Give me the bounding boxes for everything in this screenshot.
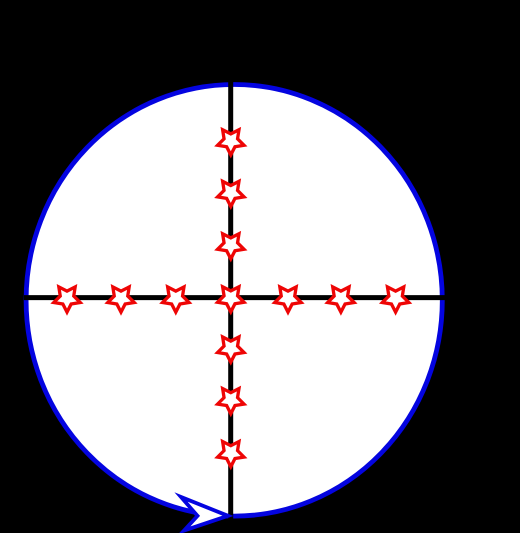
star H7 bbox=[382, 287, 408, 312]
star V6 bbox=[218, 389, 244, 414]
star V7 bbox=[218, 442, 244, 467]
vertical axis line bbox=[228, 77, 233, 525]
star V1 bbox=[218, 130, 244, 155]
star V2 bbox=[218, 181, 244, 206]
star H2 bbox=[108, 287, 134, 312]
star H5 bbox=[275, 287, 301, 312]
star center bbox=[218, 287, 244, 312]
star H6 bbox=[328, 287, 354, 312]
star V3 bbox=[218, 234, 244, 259]
star V5 bbox=[218, 337, 244, 362]
star H3 bbox=[163, 287, 189, 312]
direction arrowhead on circle bbox=[181, 497, 228, 531]
circle (blue ellipse, white fill) bbox=[26, 84, 442, 516]
star H1 bbox=[54, 287, 80, 312]
horizontal axis line bbox=[24, 295, 450, 300]
